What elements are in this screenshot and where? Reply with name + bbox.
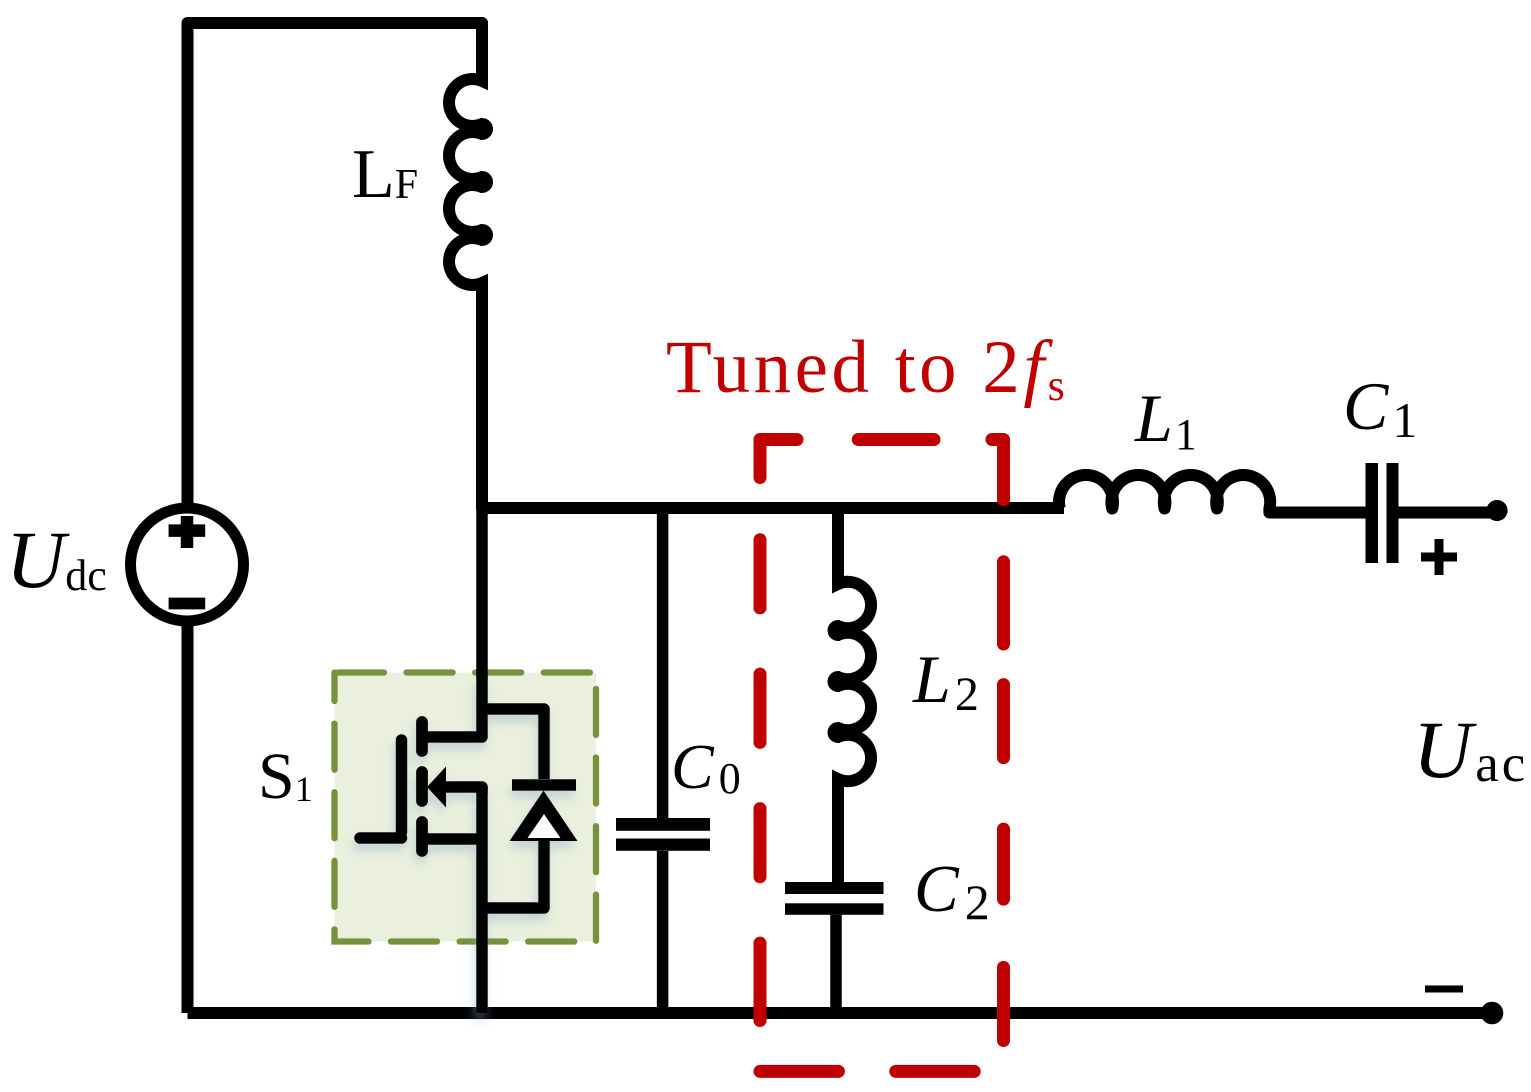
transistor Q1 drain vertical <box>424 676 482 737</box>
transistor Q1 body arrow lead <box>444 787 482 794</box>
minus sign output <box>1425 986 1463 993</box>
source Udc circle <box>131 508 244 621</box>
wire top rail <box>188 23 483 548</box>
diode D1 cathode bar <box>512 779 576 791</box>
red dashed box tuned tank <box>760 440 1004 1072</box>
switch S1 box <box>335 673 597 942</box>
source minus sign <box>169 598 206 610</box>
transistor Q1 source lead and lower vertical <box>424 787 482 1013</box>
wire C1 to terminal <box>1399 507 1498 519</box>
diode D1 triangle <box>510 791 578 842</box>
inductor L1 <box>1059 475 1368 513</box>
wire switch vertical above box <box>476 508 488 678</box>
plus sign output <box>1421 539 1457 575</box>
wire jog to diode <box>482 709 544 779</box>
terminal dot upper <box>1486 500 1507 521</box>
capacitor C2 plates <box>785 882 884 894</box>
wire node rail <box>482 502 1064 514</box>
source plus sign <box>169 516 206 548</box>
wire bottom rail <box>188 1007 1493 1019</box>
terminal dot lower <box>1481 1002 1504 1025</box>
transistor Q1 channel bars <box>416 722 428 851</box>
capacitor C1 plates <box>1366 463 1379 563</box>
inductor L2 <box>834 508 872 882</box>
wire left rail lower <box>182 626 194 1013</box>
capacitor C2 lower wire <box>830 915 842 1013</box>
capacitor C0 branch wire lower <box>657 851 669 1013</box>
transistor Q1 gate bar <box>396 740 408 832</box>
svg-text:Tuned to 2fs: Tuned to 2fs <box>666 326 1068 410</box>
inductor LF <box>449 23 487 508</box>
transistor Q1 gate lead <box>360 832 402 844</box>
diode D1 lower wire <box>482 841 544 908</box>
capacitor C0 plates <box>616 818 710 831</box>
capacitor C0 branch wire upper <box>657 508 669 818</box>
